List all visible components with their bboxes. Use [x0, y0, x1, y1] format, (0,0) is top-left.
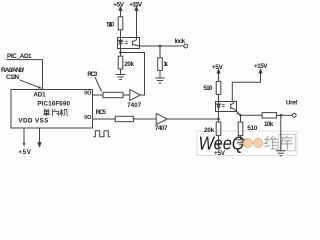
svg-text:+5V: +5V	[212, 64, 224, 71]
svg-text:7407: 7407	[155, 125, 168, 132]
svg-text:+15V: +15V	[129, 2, 143, 9]
svg-text:10k: 10k	[264, 121, 274, 128]
svg-text:+5V: +5V	[113, 2, 125, 9]
svg-text:RA0/AN0/: RA0/AN0/	[1, 67, 24, 74]
svg-text:+5V: +5V	[214, 150, 226, 157]
svg-text:7407: 7407	[127, 102, 141, 109]
svg-text:20k: 20k	[204, 127, 215, 134]
svg-text:Uref: Uref	[286, 101, 298, 107]
svg-text:20k: 20k	[124, 61, 134, 68]
svg-text:+15V: +15V	[254, 63, 268, 70]
svg-text:510: 510	[247, 125, 257, 132]
svg-text:AD1: AD1	[33, 92, 46, 99]
svg-text:I/O: I/O	[84, 91, 92, 97]
svg-text:+5V: +5V	[18, 149, 31, 156]
svg-text:PIC_AD1: PIC_AD1	[7, 53, 32, 60]
svg-text:510: 510	[107, 21, 115, 28]
svg-text:VDD VSS: VDD VSS	[18, 118, 48, 125]
svg-text:I/O: I/O	[84, 115, 92, 121]
svg-text:PIC16F690: PIC16F690	[37, 101, 70, 108]
svg-text:RC5: RC5	[96, 109, 107, 116]
svg-text:510: 510	[203, 85, 212, 92]
svg-text:1k: 1k	[163, 61, 168, 68]
svg-text:RC3: RC3	[87, 71, 97, 78]
svg-text:lock: lock	[175, 38, 186, 45]
svg-text:C1IN: C1IN	[6, 74, 19, 81]
